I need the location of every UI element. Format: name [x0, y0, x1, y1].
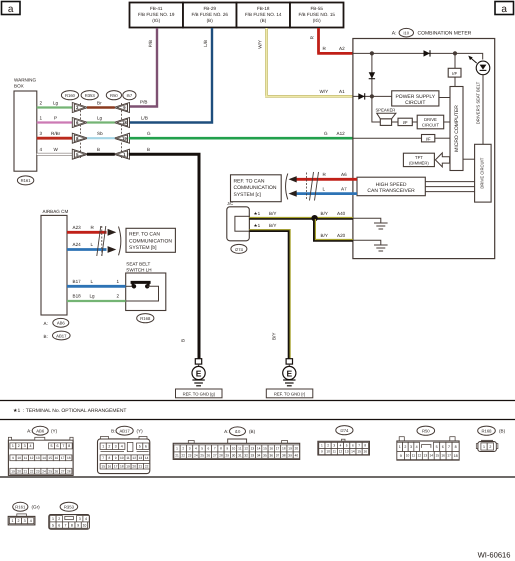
svg-text:B/Y: B/Y	[269, 211, 276, 216]
svg-text:2: 2	[182, 447, 184, 451]
svg-text:2: 2	[327, 444, 329, 448]
svg-text:AB6: AB6	[36, 429, 45, 434]
svg-text:DRIVER'S SEAT BELT: DRIVER'S SEAT BELT	[476, 81, 481, 124]
ref to can communication system [c] box	[231, 175, 282, 202]
svg-text:8: 8	[364, 444, 366, 448]
frame marker a top-right	[495, 2, 514, 16]
svg-text:10: 10	[326, 450, 330, 454]
svg-text:R/Br: R/Br	[51, 131, 61, 136]
arrow on A24 wire	[108, 246, 117, 253]
connector pinout R50	[397, 426, 459, 460]
wire B from pin 1 down to ground	[129, 147, 199, 359]
svg-text:15: 15	[357, 450, 361, 454]
svg-text:a: a	[501, 4, 507, 15]
terminal arrow pin 5 (R160)	[72, 149, 88, 159]
micro computer box	[450, 87, 463, 171]
svg-text:R50: R50	[110, 93, 118, 98]
connector oval AB6	[44, 318, 69, 327]
svg-text:R353: R353	[64, 505, 75, 510]
svg-text:2: 2	[117, 294, 120, 299]
svg-text:(Y): (Y)	[51, 429, 58, 434]
svg-text:(IG): (IG)	[313, 18, 321, 23]
svg-text:A12: A12	[337, 131, 346, 136]
junction connector J/C	[227, 201, 250, 241]
svg-text:1: 1	[399, 445, 401, 449]
wire B/Y branch to meter A20	[314, 218, 353, 240]
svg-text:11: 11	[24, 456, 28, 460]
block arrow to TFT	[435, 153, 449, 167]
svg-text:20: 20	[132, 464, 136, 468]
wire L airbag B17 to switch pin 1	[67, 279, 134, 286]
svg-text:35: 35	[263, 453, 267, 457]
svg-text:13: 13	[251, 447, 255, 451]
svg-text:I/F: I/F	[403, 120, 408, 125]
svg-text:6: 6	[352, 444, 354, 448]
wire B/Y from J/C down to ground	[249, 223, 290, 359]
svg-text:12: 12	[244, 447, 248, 451]
svg-text:14: 14	[257, 447, 261, 451]
svg-text:26: 26	[55, 469, 59, 473]
terminal arrow pin 9 (R50)	[114, 103, 130, 113]
connector pinout i10	[173, 427, 300, 460]
svg-text:(Gr): (Gr)	[32, 505, 41, 510]
svg-text:27: 27	[61, 469, 65, 473]
svg-text:4: 4	[340, 444, 342, 448]
svg-text:11: 11	[333, 450, 337, 454]
meter A1 internal line with diode	[353, 93, 392, 99]
svg-text:11: 11	[238, 447, 242, 451]
svg-text:R168: R168	[481, 429, 492, 434]
svg-text:REF. TO CAN: REF. TO CAN	[234, 178, 265, 184]
svg-text:3: 3	[24, 444, 26, 448]
svg-text:E: E	[196, 368, 202, 378]
wire P/B from FB-41 to connector R50/i57 pin 9	[129, 28, 159, 107]
svg-text:E: E	[286, 368, 292, 378]
svg-text:15: 15	[101, 464, 105, 468]
A12 I/F box	[422, 135, 435, 142]
svg-text:9: 9	[321, 450, 323, 454]
svg-text:2: 2	[18, 519, 20, 523]
svg-text:19: 19	[126, 464, 130, 468]
speaker	[372, 96, 398, 125]
svg-text:i274: i274	[235, 247, 244, 252]
svg-text:36: 36	[269, 453, 273, 457]
svg-text:4: 4	[121, 445, 123, 449]
svg-text:3: 3	[333, 444, 335, 448]
svg-text:R50: R50	[422, 429, 430, 434]
svg-text:L/B: L/B	[141, 115, 148, 120]
svg-text:31: 31	[238, 453, 242, 457]
svg-text:R161: R161	[21, 178, 32, 183]
svg-text:I/F: I/F	[426, 137, 431, 142]
svg-text:13: 13	[139, 456, 143, 460]
airbag CM label	[43, 209, 69, 214]
TFT dimmer box	[403, 153, 434, 166]
svg-text:39: 39	[288, 453, 292, 457]
svg-text:2: 2	[404, 445, 406, 449]
svg-text:(B): (B)	[499, 429, 506, 434]
connector oval R168 below switch	[137, 314, 154, 323]
svg-text:(B): (B)	[207, 18, 214, 23]
svg-text:6: 6	[208, 447, 210, 451]
wire L airbag A24	[67, 242, 107, 249]
svg-text:A:: A:	[27, 429, 31, 434]
svg-text:16: 16	[55, 456, 59, 460]
terminal arrow pin 18 (R50)	[114, 118, 130, 128]
svg-text:1: 1	[102, 445, 104, 449]
ground terminal square B/Y wire	[286, 359, 292, 364]
svg-text:(B): (B)	[249, 429, 256, 434]
bottom border line	[0, 476, 515, 478]
wire L meter A7 to CAN system	[296, 186, 357, 193]
svg-text:2: 2	[489, 445, 491, 449]
svg-text:2: 2	[58, 517, 60, 521]
fuse box FB-18	[237, 3, 291, 28]
svg-text:WARNING: WARNING	[14, 78, 36, 83]
svg-text:A:: A:	[392, 31, 397, 37]
warning box	[14, 78, 37, 172]
svg-text:17: 17	[447, 454, 451, 458]
svg-text:A:: A:	[44, 321, 48, 326]
svg-text:11: 11	[126, 456, 130, 460]
ref to can communication system [b] box	[126, 228, 175, 252]
svg-text:1: 1	[52, 517, 54, 521]
svg-text:COMBINATION METER: COMBINATION METER	[418, 31, 472, 37]
dashed connector line left column	[80, 103, 82, 158]
svg-text:CIRCUIT: CIRCUIT	[405, 100, 425, 106]
speaker drive circuit box	[417, 115, 450, 129]
speaker I/F box	[398, 118, 417, 125]
svg-text:R353: R353	[85, 93, 96, 98]
svg-text:21: 21	[175, 453, 179, 457]
svg-text:A1: A1	[339, 89, 345, 94]
svg-text:28: 28	[219, 453, 223, 457]
fuse box FB-55	[290, 3, 344, 28]
svg-text:4: 4	[40, 147, 43, 152]
svg-text:29: 29	[226, 453, 230, 457]
arrow on R wire	[289, 176, 297, 182]
wire G from pin 19 to meter A12	[129, 131, 353, 138]
svg-text:9: 9	[77, 523, 79, 527]
connector pinout AB6	[8, 426, 73, 475]
svg-text:19: 19	[11, 469, 15, 473]
svg-text:12: 12	[339, 450, 343, 454]
svg-text:★1 : TERMINAL No. OPTIONAL AR: ★1 : TERMINAL No. OPTIONAL ARRANGEMENT	[13, 408, 127, 414]
svg-text:WI-60616: WI-60616	[478, 551, 511, 560]
svg-text:8: 8	[220, 447, 222, 451]
svg-text:B: B	[181, 339, 186, 342]
svg-text:A40: A40	[337, 211, 346, 216]
wire R meter A6 to CAN system	[296, 172, 357, 179]
line micro computer to drive circuit	[463, 158, 475, 160]
svg-text:1: 1	[321, 444, 323, 448]
svg-text:Br: Br	[97, 100, 102, 105]
svg-text:P/B: P/B	[148, 40, 153, 47]
svg-text:2: 2	[40, 100, 43, 105]
svg-text:G: G	[324, 131, 328, 136]
svg-text:L: L	[91, 242, 94, 247]
twisted pair marks A6/A7	[286, 172, 319, 201]
wire P warning box pin 1	[37, 115, 73, 122]
svg-text:DRIVE CIRCUIT: DRIVE CIRCUIT	[479, 157, 484, 188]
wire Sb between connectors	[87, 131, 115, 138]
svg-text:16: 16	[269, 447, 273, 451]
svg-text:Lg: Lg	[53, 100, 59, 105]
svg-text:13: 13	[345, 450, 349, 454]
svg-text:A2: A2	[339, 46, 345, 51]
dashed connector line right column	[121, 103, 123, 158]
airbag CM box	[41, 215, 67, 315]
svg-text:17: 17	[61, 456, 65, 460]
svg-text:3: 3	[79, 517, 81, 521]
drive circuit box right	[475, 144, 492, 202]
svg-text:P/B: P/B	[140, 99, 147, 104]
svg-text:A20: A20	[337, 233, 346, 238]
svg-text:SEAT BELT: SEAT BELT	[126, 262, 150, 267]
connector pinout R353	[49, 502, 90, 529]
svg-text:8: 8	[68, 444, 70, 448]
svg-text:★1: ★1	[254, 211, 261, 216]
svg-text:SYSTEM [b]: SYSTEM [b]	[129, 245, 157, 251]
wire Br between connectors	[87, 100, 115, 107]
svg-text:REF. TO GND [r]: REF. TO GND [r]	[274, 391, 305, 396]
connector pinout AB17	[98, 426, 150, 473]
svg-text:7: 7	[214, 447, 216, 451]
svg-text:7: 7	[358, 444, 360, 448]
separator line lower	[0, 419, 515, 421]
svg-text:4: 4	[416, 445, 418, 449]
svg-text:20: 20	[17, 469, 21, 473]
meter A20 internal line to chassis ground	[353, 240, 388, 251]
junction dot on B/Y wire	[311, 215, 317, 221]
svg-text:22: 22	[182, 453, 186, 457]
svg-text:AIRBAG CM: AIRBAG CM	[43, 209, 69, 214]
svg-text:10: 10	[17, 456, 21, 460]
connector oval R353	[81, 91, 98, 100]
wire Lg warning box pin 2	[37, 100, 73, 107]
svg-text:16: 16	[108, 464, 112, 468]
svg-text:40: 40	[295, 453, 299, 457]
svg-text:3: 3	[40, 131, 43, 136]
svg-text:I/F: I/F	[452, 71, 457, 76]
svg-text:4: 4	[195, 447, 197, 451]
svg-text:14: 14	[430, 454, 434, 458]
svg-text:3: 3	[189, 447, 191, 451]
connector oval R161 below warning box	[17, 176, 33, 185]
terminal arrow pin 8 (R160)	[72, 133, 88, 143]
svg-text:L: L	[91, 279, 94, 284]
svg-text:W: W	[54, 147, 59, 152]
svg-text:14: 14	[145, 456, 149, 460]
svg-text:B/Y: B/Y	[269, 223, 276, 228]
svg-text:17: 17	[114, 464, 118, 468]
svg-text:6: 6	[442, 445, 444, 449]
svg-text:26: 26	[207, 453, 211, 457]
svg-text:5: 5	[139, 445, 141, 449]
svg-text:10: 10	[232, 447, 236, 451]
svg-text:A24: A24	[73, 242, 82, 247]
svg-text:13: 13	[424, 454, 428, 458]
svg-text:9: 9	[12, 456, 14, 460]
svg-text:20: 20	[295, 447, 299, 451]
svg-text:15: 15	[48, 456, 52, 460]
svg-text:(IG): (IG)	[152, 18, 160, 23]
junction on A1 line	[370, 94, 374, 98]
svg-text:BOX: BOX	[14, 84, 24, 89]
svg-text:33: 33	[251, 453, 255, 457]
svg-text:A6: A6	[341, 172, 347, 177]
drivers seat belt lamp wire	[476, 75, 484, 145]
svg-text:19: 19	[288, 447, 292, 451]
figure number WI-60616	[478, 551, 511, 560]
svg-text:4: 4	[85, 517, 87, 521]
svg-text:R160: R160	[65, 93, 76, 98]
svg-text:28: 28	[67, 469, 71, 473]
svg-text:15: 15	[263, 447, 267, 451]
svg-text:4: 4	[30, 444, 32, 448]
svg-text:18: 18	[67, 456, 71, 460]
svg-text:i10: i10	[404, 31, 410, 36]
svg-text:1: 1	[11, 519, 13, 523]
svg-text:14: 14	[351, 450, 355, 454]
svg-text:SPEAKER: SPEAKER	[376, 108, 396, 113]
svg-text:11: 11	[412, 454, 416, 458]
svg-text:B/Y: B/Y	[321, 211, 328, 216]
svg-text:HIGH SPEED: HIGH SPEED	[376, 182, 407, 188]
high speed can transceiver box	[357, 177, 425, 196]
terminal arrow pin 6 (R160)	[72, 118, 88, 128]
wire B between connectors	[87, 147, 115, 154]
svg-text:J/C: J/C	[227, 201, 233, 206]
svg-text:8: 8	[455, 445, 457, 449]
fuse box FB-29	[183, 3, 237, 28]
svg-text:16: 16	[441, 454, 445, 458]
svg-text:12: 12	[30, 456, 34, 460]
svg-text:DRIVE: DRIVE	[424, 117, 437, 122]
svg-text:3: 3	[410, 445, 412, 449]
arrow on L wire	[289, 190, 297, 196]
svg-text:12: 12	[132, 456, 136, 460]
svg-text:3: 3	[24, 519, 26, 523]
svg-text:TFT: TFT	[415, 155, 423, 160]
svg-text:(DIMMER): (DIMMER)	[409, 161, 429, 166]
wire R airbag A23	[67, 225, 107, 232]
svg-text:5: 5	[201, 447, 203, 451]
connector pinout i274	[318, 426, 370, 455]
svg-text:7: 7	[102, 456, 104, 460]
svg-text:AB6: AB6	[57, 321, 66, 326]
svg-text:1: 1	[176, 447, 178, 451]
seat belt switch LH box	[126, 273, 166, 311]
svg-text:21: 21	[24, 469, 28, 473]
svg-text:5: 5	[346, 444, 348, 448]
svg-text:i57: i57	[127, 93, 133, 98]
svg-text:FB-18: FB-18	[257, 6, 270, 11]
svg-text:W/Y: W/Y	[320, 89, 329, 94]
terminal arrow pin 1 (i57)	[114, 149, 130, 159]
svg-text:F/B FUSE NO. 19: F/B FUSE NO. 19	[138, 12, 175, 17]
svg-text:B/Y: B/Y	[272, 333, 277, 340]
svg-text:W/Y: W/Y	[258, 40, 263, 49]
svg-text:38: 38	[282, 453, 286, 457]
svg-text:1: 1	[483, 445, 485, 449]
svg-text:Lg: Lg	[97, 115, 103, 120]
svg-text:5: 5	[52, 523, 54, 527]
svg-text:(B): (B)	[260, 18, 267, 23]
svg-text:A7: A7	[341, 186, 347, 191]
combination meter box U i10	[353, 39, 495, 259]
svg-text:2: 2	[18, 444, 20, 448]
connector oval i274 below J/C	[231, 244, 247, 253]
svg-text:R168: R168	[140, 316, 151, 321]
svg-text:FB-29: FB-29	[203, 6, 216, 11]
combination meter title	[392, 28, 472, 37]
wire R from FB-55 to meter pin A2	[310, 28, 353, 53]
svg-text:8: 8	[109, 456, 111, 460]
svg-text:5: 5	[51, 444, 53, 448]
svg-text:CAN TRANSCEIVER: CAN TRANSCEIVER	[367, 188, 415, 194]
svg-text:B: B	[97, 147, 100, 152]
svg-text:FB-55: FB-55	[310, 6, 323, 11]
svg-text:15: 15	[435, 454, 439, 458]
can transceiver to drive circuit lines	[425, 182, 474, 192]
ground E symbol right	[283, 364, 296, 386]
svg-text:REF. TO GND [g]: REF. TO GND [g]	[183, 391, 215, 396]
svg-text:1: 1	[117, 279, 120, 284]
svg-text:FB-41: FB-41	[150, 6, 163, 11]
svg-text:SYSTEM [c]: SYSTEM [c]	[234, 192, 262, 198]
svg-text:B:: B:	[44, 334, 48, 339]
svg-text:10: 10	[120, 456, 124, 460]
svg-text:3: 3	[115, 445, 117, 449]
seat belt switch contacts	[126, 282, 159, 301]
svg-text:9: 9	[115, 456, 117, 460]
svg-text:9: 9	[226, 447, 228, 451]
arrow on A23 wire	[108, 229, 117, 236]
svg-text:B:: B:	[111, 429, 115, 434]
svg-text:COMMUNICATION: COMMUNICATION	[129, 238, 172, 244]
svg-text:18: 18	[282, 447, 286, 451]
seat belt warning LED	[468, 56, 490, 75]
IF box top (lamp driver)	[448, 53, 461, 86]
frame marker a top-left	[2, 2, 21, 16]
svg-text:13: 13	[36, 456, 40, 460]
svg-text:1: 1	[12, 444, 14, 448]
svg-text:L: L	[323, 186, 326, 191]
connector pinout R168	[476, 426, 505, 451]
svg-text:P: P	[54, 115, 57, 120]
svg-text:G: G	[147, 131, 151, 136]
svg-text:6: 6	[56, 444, 58, 448]
svg-text:7: 7	[65, 523, 67, 527]
svg-text:14: 14	[42, 456, 46, 460]
wire W warning box pin 4	[37, 147, 73, 154]
svg-text:F/B FUSE NO. 26: F/B FUSE NO. 26	[191, 12, 228, 17]
svg-text:CIRCUIT: CIRCUIT	[422, 123, 439, 128]
svg-text:25: 25	[48, 469, 52, 473]
svg-text:i274: i274	[340, 428, 349, 433]
svg-text:7: 7	[448, 445, 450, 449]
wire Lg airbag B18 to switch pin 2	[67, 294, 126, 301]
svg-text:2: 2	[108, 445, 110, 449]
ground terminal square B wire	[195, 359, 201, 364]
connector oval i57	[123, 91, 136, 100]
connector oval AB17	[44, 331, 71, 340]
svg-text:22: 22	[145, 464, 149, 468]
svg-text:19: 19	[122, 136, 127, 141]
wire B/Y from J/C to meter A40	[249, 211, 353, 218]
wire Lg between connectors	[87, 115, 115, 122]
